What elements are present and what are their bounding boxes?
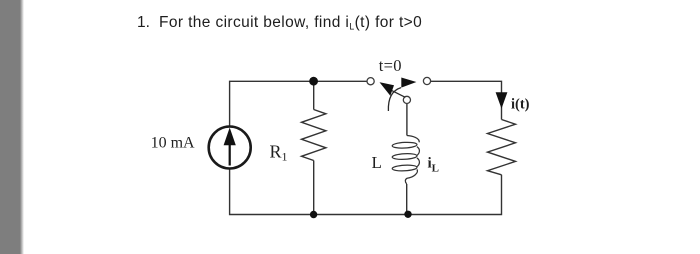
svg-text:L: L	[372, 153, 382, 172]
svg-text:iL: iL	[428, 156, 440, 175]
svg-text:10 mA: 10 mA	[151, 135, 195, 152]
svg-text:i(t): i(t)	[511, 97, 530, 113]
svg-text:R1: R1	[270, 142, 288, 164]
svg-text:t=0: t=0	[379, 56, 402, 75]
